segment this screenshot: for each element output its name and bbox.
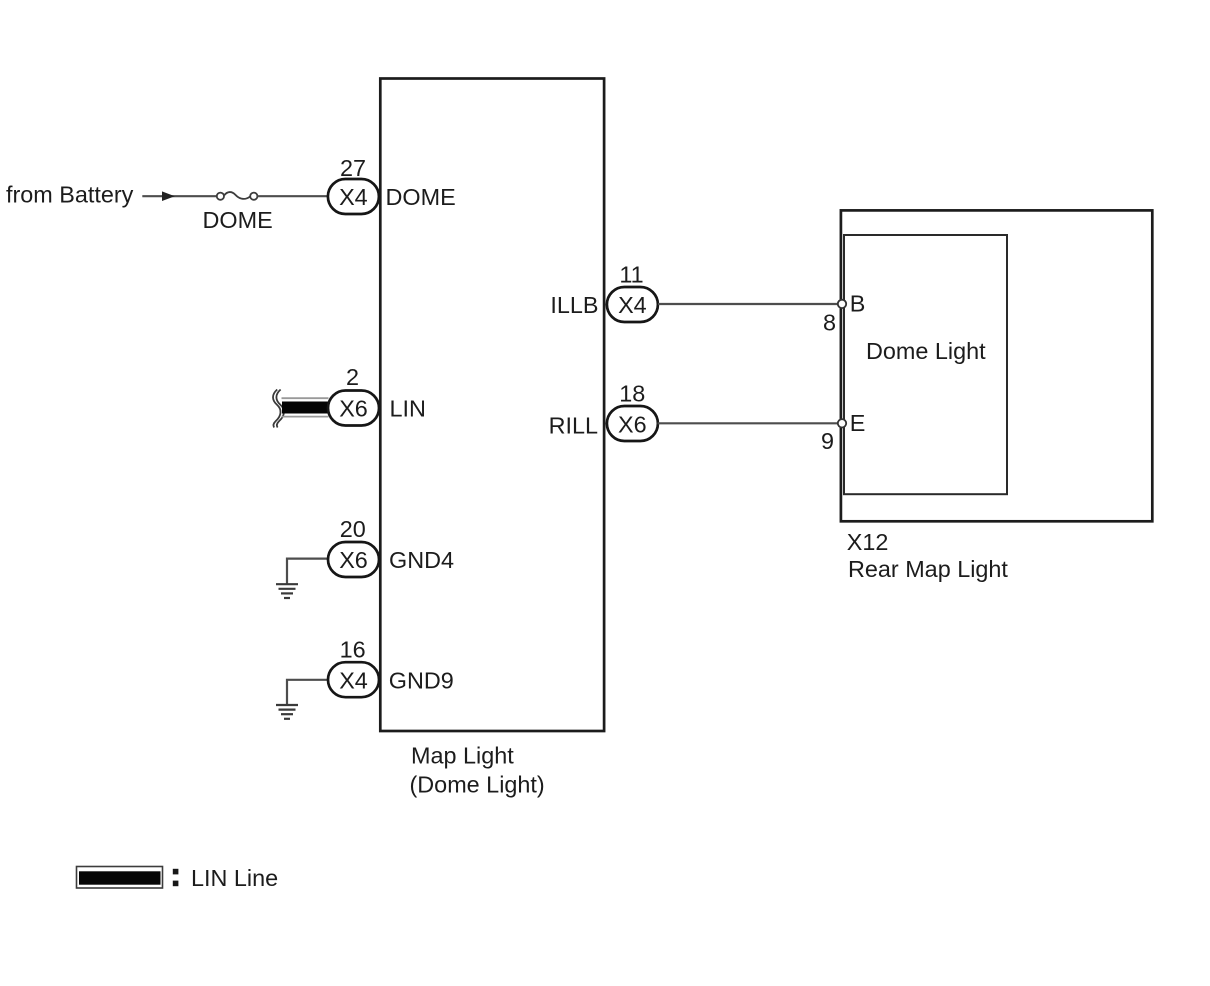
fuse DOME bbox=[217, 192, 258, 200]
svg-text:20: 20 bbox=[340, 516, 366, 542]
svg-text:Dome Light: Dome Light bbox=[866, 338, 986, 364]
svg-text:from Battery: from Battery bbox=[6, 182, 134, 208]
svg-text:X6: X6 bbox=[339, 396, 368, 422]
svg-text:X6: X6 bbox=[618, 411, 647, 437]
svg-text:11: 11 bbox=[619, 262, 643, 288]
svg-text:27: 27 bbox=[340, 155, 366, 181]
svg-text:X4: X4 bbox=[618, 292, 647, 318]
wire ground to X6 GND4 bbox=[287, 559, 330, 584]
svg-text:18: 18 bbox=[619, 381, 645, 407]
LIN wire (shielded bar) bbox=[282, 397, 329, 399]
wire RILL to pin E bbox=[658, 422, 839, 424]
connector X4 (ILLB) bbox=[607, 287, 658, 322]
svg-text:(Dome Light): (Dome Light) bbox=[410, 772, 545, 798]
svg-text:DOME: DOME bbox=[203, 207, 273, 233]
svg-text:X4: X4 bbox=[339, 667, 368, 693]
wire ground to X4 GND9 bbox=[287, 680, 330, 704]
svg-text:RILL: RILL bbox=[549, 413, 598, 439]
svg-text:16: 16 bbox=[340, 636, 366, 662]
ground symbol GND4 bbox=[276, 584, 298, 598]
pin E terminal bbox=[838, 419, 846, 427]
svg-text:X6: X6 bbox=[339, 547, 368, 573]
ECU box Map Light (Dome Light) bbox=[380, 79, 604, 732]
wire ILLB to pin B bbox=[658, 303, 838, 305]
wire from Battery to fuse bbox=[142, 195, 217, 197]
svg-text:E: E bbox=[850, 410, 866, 436]
Rear Map Light outer box bbox=[841, 210, 1152, 521]
LIN line break squiggle bbox=[273, 390, 281, 428]
svg-text:GND9: GND9 bbox=[389, 668, 454, 694]
svg-text:Map Light: Map Light bbox=[411, 742, 514, 768]
connector X6 (RILL) bbox=[607, 406, 658, 441]
svg-text:2: 2 bbox=[346, 364, 359, 390]
svg-text:ILLB: ILLB bbox=[550, 292, 598, 318]
connector X4 (DOME) bbox=[328, 179, 379, 214]
svg-text:Rear Map Light: Rear Map Light bbox=[848, 556, 1008, 582]
pin B terminal bbox=[838, 300, 846, 308]
svg-text:GND4: GND4 bbox=[389, 547, 454, 573]
connector X4 (GND9) bbox=[328, 662, 379, 697]
connector X6 (LIN) bbox=[328, 391, 379, 426]
arrowhead on battery wire bbox=[162, 191, 175, 201]
svg-text:B: B bbox=[850, 291, 866, 317]
svg-text:9: 9 bbox=[821, 428, 834, 454]
svg-text:X12: X12 bbox=[847, 529, 889, 555]
connector X6 (GND4) bbox=[328, 542, 379, 577]
legend colon bbox=[173, 869, 179, 875]
svg-text:LIN: LIN bbox=[390, 396, 426, 422]
svg-text:LIN Line: LIN Line bbox=[191, 865, 278, 891]
Dome Light inner box bbox=[844, 235, 1007, 494]
wire fuse to connector X4 bbox=[258, 195, 330, 197]
svg-text:X4: X4 bbox=[339, 184, 368, 210]
ground symbol GND9 bbox=[276, 705, 298, 719]
svg-text:8: 8 bbox=[823, 309, 836, 335]
svg-text:DOME: DOME bbox=[386, 184, 456, 210]
legend LIN Line swatch bbox=[77, 867, 163, 889]
